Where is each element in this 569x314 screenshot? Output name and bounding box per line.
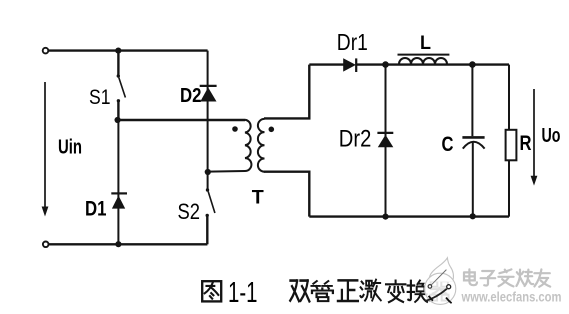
watermark glyph 子	[481, 271, 496, 286]
svg-text:1-1: 1-1	[228, 277, 258, 309]
diode D2	[200, 51, 217, 172]
svg-text:L: L	[420, 33, 431, 54]
watermark glyph 烧	[516, 270, 533, 286]
switch S1	[117, 74, 126, 102]
wire: secondary bottom rail	[309, 215, 509, 217]
node: primary bottom junction	[205, 169, 211, 175]
watermark logo plug line thin	[431, 270, 446, 285]
svg-text:Uin: Uin	[58, 137, 82, 159]
caption glyph 图	[202, 281, 221, 301]
caption glyph 双	[290, 281, 309, 302]
svg-text:S2: S2	[178, 199, 201, 224]
caption glyph 正	[338, 280, 358, 301]
capacitor C	[462, 65, 484, 217]
node: S1 top junction	[115, 48, 121, 54]
caption glyph 激	[360, 280, 380, 301]
svg-text:Uo: Uo	[542, 125, 561, 147]
transformer secondary polarity dot	[269, 127, 275, 133]
wire: node A to transformer primary top	[118, 119, 245, 121]
node: primary top junction	[115, 117, 121, 123]
caption glyph 管	[312, 281, 333, 301]
Uin arrow	[42, 82, 49, 217]
input terminal bottom	[43, 242, 49, 248]
wire: secondary top rail	[309, 63, 509, 65]
diode Dr2	[377, 65, 393, 217]
wire: secondary bottom return	[264, 172, 309, 217]
transformer primary polarity dot	[232, 126, 238, 132]
node: D1 bottom rail junction	[115, 241, 121, 247]
svg-text:www.elecfans.com: www.elecfans.com	[461, 288, 562, 304]
input terminal top	[43, 48, 49, 54]
caption glyph 换	[408, 281, 427, 302]
caption glyph 变	[386, 281, 405, 303]
node: freewheel junction	[382, 61, 389, 68]
node: L output junction	[469, 61, 476, 68]
switch S2	[206, 172, 215, 244]
watermark logo plug circle small 2	[447, 285, 451, 289]
watermark logo dark remnant left	[429, 296, 433, 301]
wire: bottom rail Vin-	[49, 243, 208, 245]
watermark logo plug circle small	[428, 285, 432, 289]
svg-text:Dr1: Dr1	[337, 29, 368, 55]
watermark glyph 发	[498, 269, 513, 286]
wire: S1 lower lead	[117, 101, 119, 120]
wire: S1 upper lead	[117, 51, 119, 75]
svg-text:C: C	[442, 133, 454, 156]
watermark logo circle over caption	[425, 273, 456, 304]
caption glyph 器 (partly hidden by watermark logo)	[430, 281, 449, 300]
node: Dr2 bottom rail junction	[382, 214, 388, 220]
watermark logo dark swoosh	[425, 289, 447, 301]
svg-text:S1: S1	[89, 86, 111, 109]
node: C bottom rail junction	[470, 213, 476, 219]
wire: top rail Vin+	[49, 49, 208, 51]
svg-text:R: R	[520, 132, 532, 155]
transformer T secondary winding	[258, 119, 265, 172]
svg-text:T: T	[252, 187, 264, 208]
watermark logo dark remnant right	[446, 298, 452, 304]
resistor R	[506, 65, 517, 217]
svg-text:Dr2: Dr2	[339, 125, 372, 152]
watermark glyph 电	[464, 269, 477, 285]
svg-text:D1: D1	[85, 197, 107, 220]
Uo arrow	[531, 89, 538, 186]
transformer T primary winding	[208, 120, 251, 172]
watermark logo flame	[429, 258, 453, 282]
wire: secondary top to rectifier	[264, 65, 309, 119]
inductor L	[398, 55, 450, 64]
diode D1	[111, 120, 127, 244]
svg-text:D2: D2	[180, 85, 202, 107]
watermark text 电子发烧友	[464, 269, 550, 286]
watermark glyph 友	[534, 269, 550, 286]
diode Dr1	[343, 58, 356, 72]
